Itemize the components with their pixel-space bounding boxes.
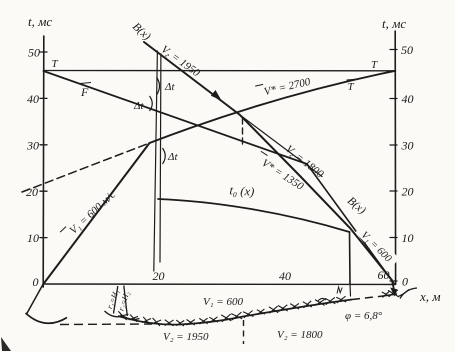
delta-t brace 1 (157, 77, 160, 95)
overbar of T (347, 78, 356, 81)
svg-text:x, м: x, м (419, 289, 441, 304)
reciprocal time line T (44, 70, 396, 72)
refracted travel-time curve V*=2700 (150, 71, 396, 143)
svg-text:40: 40 (402, 92, 414, 106)
svg-text:20: 20 (26, 185, 38, 199)
svg-text:V* = 2700: V* = 2700 (263, 76, 312, 98)
dashed vertical at Vg change (242, 118, 244, 147)
direct wave line V1=600 from left source (43, 143, 149, 284)
delta-t brace 3 (163, 148, 166, 164)
svg-text:V₁ = 600: V₁ = 600 (203, 296, 243, 308)
label V*=1350 (253, 151, 307, 193)
right tick labels (401, 43, 414, 289)
svg-text:V₂ = 1800: V₂ = 1800 (277, 329, 323, 341)
delta-t brace 2 (150, 96, 153, 111)
svg-text:10: 10 (27, 231, 39, 245)
svg-text:30: 30 (26, 139, 39, 153)
arc under r1 (105, 311, 124, 317)
svg-text:t₀ (x): t₀ (x) (229, 183, 255, 199)
zigzag mark on interface (337, 287, 342, 294)
arrowhead on B(x) mid (211, 90, 222, 101)
small mark on interface left of vertical (318, 298, 326, 301)
difference curve B(x) (144, 42, 392, 280)
swoosh lower stroke (398, 290, 410, 297)
svg-text:φ = 6,8°: φ = 6,8° (345, 310, 383, 322)
svg-text:40: 40 (279, 269, 291, 283)
svg-text:B(x): B(x) (130, 21, 153, 43)
svg-text:Vг = 1950: Vг = 1950 (158, 43, 202, 80)
bottom sketch: ray from origin to wavefront arc (26, 284, 43, 315)
svg-text:T: T (348, 81, 355, 93)
label V1=600 on reverse direct line (354, 223, 399, 268)
reverse hodograph direct branch V1=600 (307, 164, 394, 284)
svg-text:T: T (52, 58, 59, 70)
svg-text:50: 50 (28, 46, 40, 60)
arrowhead below axis on B(x) (390, 288, 397, 297)
left axis ticks (40, 52, 47, 238)
dashed vertical below axis at Vg change (243, 320, 245, 344)
slope extension line Vg=1800 (240, 115, 322, 177)
svg-text:t, мс: t, мс (382, 16, 406, 31)
svg-text:t, мс: t, мс (28, 14, 52, 29)
left tick labels (26, 46, 40, 290)
delta-t vertical marker line 1 (154, 51, 158, 271)
wavefront arc left (26, 313, 68, 323)
refractor interface solid part (118, 300, 352, 325)
svg-text:50: 50 (401, 43, 413, 57)
dashed datum line (60, 323, 152, 326)
svg-text:B(x): B(x) (345, 195, 368, 217)
x-axis (43, 283, 395, 286)
scan blob bottom-left corner (1, 337, 11, 351)
hatch marks along interface (117, 290, 398, 326)
svg-text:0: 0 (33, 275, 39, 289)
x-axis end swoosh (400, 288, 417, 299)
svg-text:20: 20 (402, 185, 414, 199)
svg-text:V₁ = 600 м/с: V₁ = 600 м/с (67, 189, 117, 237)
svg-text:Δt: Δt (167, 151, 178, 163)
x tick labels (153, 268, 409, 289)
svg-text:20: 20 (153, 269, 165, 283)
label V1=600 m/s on left direct line (60, 187, 118, 242)
svg-text:F: F (80, 85, 89, 99)
svg-text:V₂ = 1950: V₂ = 1950 (163, 331, 209, 343)
label V*=2700 (255, 74, 312, 100)
dashed extension of refracted branch to left axis (22, 143, 150, 192)
svg-text:60: 60 (378, 268, 390, 282)
reverse hodograph refracted branch F (44, 71, 308, 164)
delta-t vertical marker line 2 (159, 54, 162, 262)
profile marker below axis at x=350 (349, 284, 352, 296)
svg-text:10: 10 (402, 231, 414, 245)
left t-axis (42, 36, 45, 287)
t0(x) curve (158, 199, 350, 232)
right axis ticks (390, 50, 397, 282)
svg-text:40: 40 (27, 92, 39, 106)
svg-text:Δt: Δt (133, 100, 144, 112)
svg-text:30: 30 (401, 139, 414, 153)
ray r1=H1 (114, 286, 118, 314)
svg-text:Δt: Δt (164, 81, 175, 93)
right t-axis (394, 31, 396, 284)
refractor interface dashed part (352, 296, 383, 300)
arc under r2 (121, 315, 140, 320)
svg-text:T: T (371, 59, 378, 71)
ray r2=H2 (124, 286, 128, 317)
B(x) arrow below axis (392, 280, 395, 291)
refractor interface right tail (383, 294, 397, 296)
t0 curve right drop (349, 232, 352, 284)
overbar of F (80, 83, 91, 84)
